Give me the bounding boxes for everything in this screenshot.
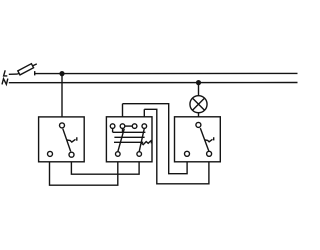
- node junction dot on N above lamp: [196, 80, 201, 85]
- switch S1 bottom-left terminal: [48, 151, 53, 156]
- wire riser from L to switch S1: [61, 74, 63, 117]
- switch S2 top terminal 1: [110, 124, 115, 129]
- node N label: [2, 79, 8, 85]
- switch S3 lever: [200, 128, 209, 151]
- wire riser from S2 terminal2: [122, 104, 124, 117]
- fuse F1 body: [18, 64, 34, 75]
- lamp E1 circle: [190, 96, 207, 113]
- switch S3 box (two-way switch): [175, 117, 221, 162]
- switch S2 bottom-left terminal: [116, 152, 121, 157]
- switch S2 top terminal 3: [132, 124, 137, 129]
- switch S1 actuator squiggle: [67, 137, 77, 142]
- switch S2 bridge bar terminal2-terminal3: [125, 125, 132, 127]
- switch S3 actuator squiggle: [204, 137, 213, 142]
- wire S1 bottom-right to middle switch bottom-right (inner U loop): [71, 162, 139, 174]
- wire N to lamp: [198, 83, 200, 96]
- switch S1 box (two-way switch): [39, 117, 85, 162]
- switch S2 top terminal 2: [120, 124, 125, 129]
- switch S2 contact rail 2: [114, 136, 144, 138]
- switch S2 right contact arm: [139, 129, 144, 152]
- lamp E1 cross line 2: [193, 98, 205, 110]
- switch S2 top terminal 4: [142, 124, 147, 129]
- switch S2 left contact arm: [118, 129, 124, 152]
- fuse F1 blade tip segments: [17, 64, 36, 74]
- switch S2 contact rail 3: [114, 141, 143, 143]
- fuse F1 contact tick: [34, 71, 36, 75]
- switch S1 lever: [63, 129, 71, 152]
- wire L line: [35, 72, 298, 74]
- switch S2 actuator squiggle: [141, 140, 152, 145]
- fuse F1 lead-in wire: [9, 73, 18, 75]
- node L label: [4, 70, 8, 76]
- node junction dot on L above switch S1: [59, 71, 64, 76]
- switch S2 terminal1 stem: [113, 129, 123, 133]
- lamp E1 cross line 1: [193, 98, 205, 110]
- wire lamp to switch S3: [198, 113, 200, 117]
- wire S1 bottom-left to middle switch bottom-left (outer U loop): [50, 162, 118, 185]
- switch S2 bottom-right terminal: [137, 152, 142, 157]
- wire loop S2 terminal4 to S3 bottom-right: [144, 109, 209, 184]
- switch S2 contact rail 1: [113, 131, 146, 133]
- switch S3 top terminal: [196, 122, 201, 127]
- wire N line: [9, 82, 298, 84]
- switch S1 top terminal: [60, 123, 65, 128]
- switch S2 box (intermediate cross switch): [106, 117, 152, 162]
- switch S3 bottom-left terminal: [185, 151, 190, 156]
- switch S1 bottom-right terminal: [69, 152, 74, 157]
- switch S3 bottom-right terminal: [207, 151, 212, 156]
- wire loop S2 terminal2 to S3 bottom-left: [123, 104, 188, 174]
- wire riser from S2 terminal4: [143, 109, 145, 117]
